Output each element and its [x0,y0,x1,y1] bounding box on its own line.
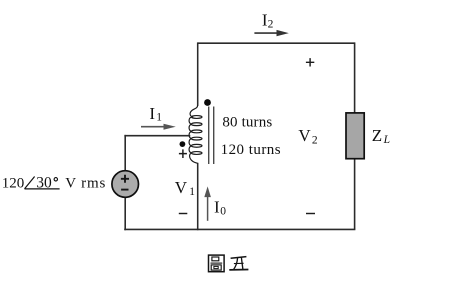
plus sign at tap (V1 +) [179,149,187,158]
source plus [121,175,129,183]
svg-text:I: I [214,198,220,217]
svg-text:V rms: V rms [65,175,105,191]
arrow I0 (upward) [204,186,211,220]
load ZL rectangle [346,113,364,159]
source minus [121,189,128,191]
polarity dot top (80-turn side) [204,99,211,106]
wire tap horizontal (source to winding tap) [124,135,190,137]
polarity dot at tap [180,141,186,147]
voltage source VS circle [112,171,139,198]
svg-text:120 turns: 120 turns [221,142,281,158]
svg-text:I: I [149,104,155,123]
label 120/30 V rms [2,174,106,191]
wire transformer vertical bottom [197,163,199,230]
svg-text:Z: Z [372,126,382,145]
minus sign (V1 -) [179,213,188,215]
wire right (load branch upper) [354,42,356,113]
svg-text:V: V [298,126,311,145]
arrow I1 [141,124,176,130]
transformer core (two vertical bars) [209,107,214,165]
caption glyph 五 (five) [229,257,248,270]
svg-text:2: 2 [268,18,274,30]
wire bottom [124,228,355,230]
svg-text:1: 1 [189,186,195,198]
plus sign (V2 +) [306,58,314,66]
wire source bottom vertical [124,198,126,230]
svg-text:L: L [383,134,390,146]
arrow I2 [254,30,288,36]
wire source top vertical [124,135,126,170]
svg-text:0: 0 [220,206,226,218]
caption glyph 圖 (figure) [209,255,225,272]
svg-text:V: V [175,178,188,197]
inductor L1 (autotransformer winding, 80+120 turns) [189,105,202,163]
svg-text:2: 2 [312,135,318,147]
wire right (load branch lower) [354,158,356,229]
svg-text:1: 1 [156,111,162,123]
wire transformer vertical top [197,42,199,105]
svg-text:30: 30 [36,174,52,191]
svg-text:80 turns: 80 turns [222,114,272,130]
svg-text:120: 120 [2,175,24,191]
wire top (I2 branch) [198,42,355,44]
minus sign (V2 -) [306,213,315,215]
